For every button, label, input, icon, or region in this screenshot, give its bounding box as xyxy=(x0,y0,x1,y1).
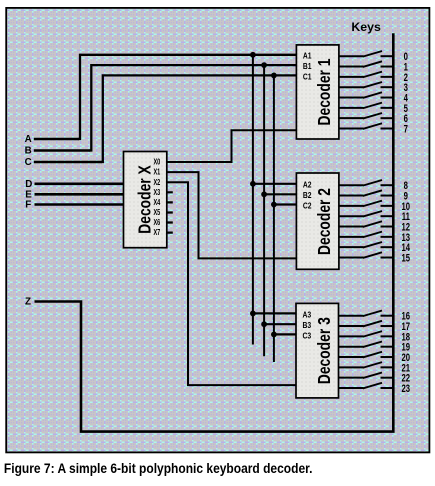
svg-text:Decoder X: Decoder X xyxy=(135,165,155,234)
svg-text:Decoder 2: Decoder 2 xyxy=(314,188,334,255)
svg-text:Decoder 3: Decoder 3 xyxy=(314,317,334,384)
svg-text:23: 23 xyxy=(402,383,411,396)
svg-text:F: F xyxy=(25,200,31,211)
svg-text:X0: X0 xyxy=(153,159,160,167)
svg-text:B2: B2 xyxy=(303,191,312,201)
svg-text:X7: X7 xyxy=(153,229,160,237)
svg-text:B3: B3 xyxy=(303,321,312,331)
svg-text:X6: X6 xyxy=(153,219,160,227)
svg-text:X5: X5 xyxy=(153,209,160,217)
svg-text:X4: X4 xyxy=(153,199,160,207)
svg-text:A2: A2 xyxy=(303,180,312,190)
svg-text:C2: C2 xyxy=(303,201,312,211)
svg-text:B: B xyxy=(25,146,32,157)
svg-text:A: A xyxy=(25,134,32,145)
svg-text:X3: X3 xyxy=(153,189,160,197)
svg-text:7: 7 xyxy=(404,123,408,136)
svg-text:C3: C3 xyxy=(303,331,312,341)
svg-text:X2: X2 xyxy=(153,179,160,187)
svg-text:B1: B1 xyxy=(303,61,312,71)
svg-text:Z: Z xyxy=(25,297,31,308)
svg-text:Figure 7: A simple 6-bit polyp: Figure 7: A simple 6-bit polyphonic keyb… xyxy=(4,460,313,476)
svg-text:A3: A3 xyxy=(303,310,312,320)
svg-text:Keys: Keys xyxy=(351,20,381,34)
svg-text:X1: X1 xyxy=(153,169,160,177)
svg-text:D: D xyxy=(25,179,32,190)
svg-text:C: C xyxy=(25,157,32,168)
svg-text:A1: A1 xyxy=(303,51,312,61)
svg-text:C1: C1 xyxy=(303,72,312,82)
svg-text:Decoder 1: Decoder 1 xyxy=(314,58,334,125)
svg-text:15: 15 xyxy=(402,252,411,265)
